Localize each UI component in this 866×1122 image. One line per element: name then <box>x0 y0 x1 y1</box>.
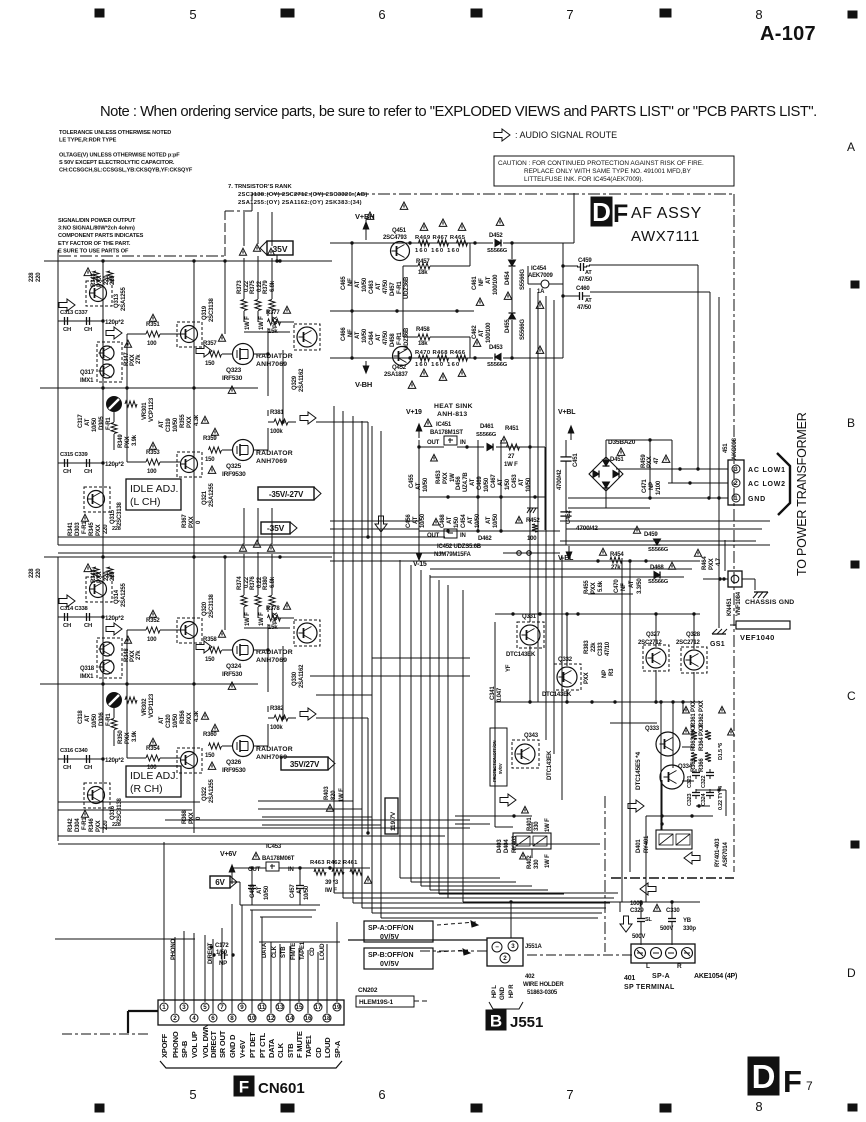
svg-text:PXX: PXX <box>96 524 102 536</box>
svg-text:IRF530: IRF530 <box>222 375 243 382</box>
transistor Q331 <box>517 622 544 648</box>
signal arrow <box>106 623 122 635</box>
svg-text:AT: AT <box>416 482 422 490</box>
svg-text:18k: 18k <box>418 341 428 347</box>
svg-text:15: 15 <box>296 1004 303 1011</box>
svg-text:3: 3 <box>734 466 738 473</box>
svg-text:18: 18 <box>324 1015 331 1022</box>
center vertical bundle A <box>333 406 335 893</box>
svg-text:IDLE ADJ.: IDLE ADJ. <box>130 770 178 782</box>
transistor rank note <box>228 184 368 206</box>
svg-text:100: 100 <box>147 469 157 475</box>
wires heatsink top <box>419 446 444 448</box>
svg-text:1: 1 <box>162 1004 166 1011</box>
svg-text:R354: R354 <box>146 746 160 752</box>
svg-text:D451: D451 <box>610 457 624 463</box>
svg-text:AT: AT <box>159 716 165 724</box>
svg-text:100k: 100k <box>270 725 283 731</box>
svg-text:ASR7014: ASR7014 <box>723 842 729 867</box>
svg-text:2: 2 <box>503 955 507 962</box>
svg-text:AT: AT <box>468 516 474 524</box>
svg-text:2SC2712: 2SC2712 <box>638 640 662 646</box>
svg-text:C463: C463 <box>369 280 375 294</box>
svg-text:VEF1040: VEF1040 <box>740 633 775 642</box>
svg-text:LITTELFUSE INK. FOR IC454(AEK7: LITTELFUSE INK. FOR IC454(AEK7009). <box>524 176 644 183</box>
svg-text:IC454: IC454 <box>531 266 547 272</box>
svg-text:PXX: PXX <box>187 712 193 724</box>
svg-text:A-107: A-107 <box>760 23 816 45</box>
flag 35V <box>260 241 293 255</box>
tolerance notes block <box>59 130 193 174</box>
svg-text:Q325: Q325 <box>226 463 242 470</box>
to power transformer bracket <box>777 453 790 515</box>
svg-text:220: 220 <box>103 524 109 534</box>
svg-text:10/50: 10/50 <box>362 277 368 292</box>
svg-text:D468: D468 <box>650 565 664 571</box>
svg-text:220: 220 <box>110 275 116 285</box>
svg-text:BA178M06T: BA178M06T <box>262 856 295 862</box>
svg-text:CHASSIS GND: CHASSIS GND <box>745 599 794 606</box>
wire vertical x225 <box>224 261 226 334</box>
svg-text:10: 10 <box>249 1015 256 1022</box>
svg-text:Q328: Q328 <box>686 632 701 638</box>
wires output stage <box>222 353 232 355</box>
svg-text:2SA1255: 2SA1255 <box>209 779 215 803</box>
svg-text:6: 6 <box>211 1015 215 1022</box>
mosfet Q326 <box>233 736 254 757</box>
svg-text:C318: C318 <box>78 710 84 724</box>
svg-text:14: 14 <box>287 1015 294 1022</box>
svg-text:A: A <box>847 140 855 154</box>
svg-text:22k: 22k <box>591 642 597 652</box>
svg-text:PXX: PXX <box>96 820 102 832</box>
svg-text:AT: AT <box>486 276 492 284</box>
svg-text:160 160 160: 160 160 160 <box>415 248 460 254</box>
channel R bottom buses <box>58 835 445 837</box>
net V-BH <box>363 361 369 373</box>
svg-text:D404: D404 <box>504 839 510 853</box>
svg-text:CH: CH <box>84 623 92 629</box>
svg-text:C315 C339: C315 C339 <box>60 452 89 458</box>
svg-text:5.6k: 5.6k <box>598 580 604 592</box>
signal arrow <box>106 327 122 339</box>
svg-text:SL: SL <box>645 917 652 923</box>
svg-text:100/100: 100/100 <box>493 274 499 295</box>
audio route arrow <box>300 412 316 424</box>
svg-text:AT: AT <box>85 418 91 426</box>
audio arrows <box>500 794 516 806</box>
svg-text:R: R <box>677 963 682 970</box>
resistor zigzags R36x <box>691 731 697 740</box>
svg-text:228: 228 <box>112 526 121 532</box>
svg-text:401: 401 <box>624 975 635 982</box>
wires driver <box>276 321 294 323</box>
svg-text:UZ4.7B: UZ4.7B <box>463 472 469 492</box>
vertical stubs top of channels <box>243 212 245 246</box>
jumper circles <box>517 551 522 556</box>
svg-text:R374: R374 <box>237 576 243 590</box>
svg-text:D457: D457 <box>390 282 396 296</box>
resistor R343 <box>93 271 99 281</box>
svg-text:F: F <box>613 200 628 228</box>
svg-text:R352: R352 <box>146 618 160 624</box>
svg-text:Note : When ordering service p: Note : When ordering service parts, be s… <box>100 104 817 120</box>
svg-text:−: − <box>495 944 499 951</box>
svg-text:Q314: Q314 <box>114 589 120 604</box>
transistor Q319 <box>177 322 202 347</box>
right feed verticals from PSU <box>697 265 699 469</box>
svg-text:Q317: Q317 <box>80 370 95 376</box>
wires output stage <box>222 649 232 651</box>
svg-text:PXX: PXX <box>187 416 193 428</box>
svg-text:R351: R351 <box>146 322 160 328</box>
svg-text:R364 PXX: R364 PXX <box>699 724 705 751</box>
svg-text:DTC143EK: DTC143EK <box>506 652 536 658</box>
svg-text:HLEM19S-1: HLEM19S-1 <box>359 999 394 1006</box>
svg-text:2: 2 <box>173 1015 177 1022</box>
svg-text:11: 11 <box>259 1004 266 1011</box>
svg-text:VOL UP: VOL UP <box>190 1031 199 1058</box>
idle adjust box L-ch <box>126 479 181 510</box>
svg-text:D452: D452 <box>489 233 503 239</box>
transistor Q313 <box>86 281 112 306</box>
svg-text:Q326: Q326 <box>226 759 242 766</box>
svg-text:12: 12 <box>268 1015 275 1022</box>
svg-text:IRF9530: IRF9530 <box>222 471 246 478</box>
svg-text:820: 820 <box>331 790 337 800</box>
wires bridge to AC connector <box>606 439 672 441</box>
svg-text:R361 PXX: R361 PXX <box>691 700 697 727</box>
mosfet Q324 <box>233 640 254 661</box>
svg-text:10/50: 10/50 <box>493 513 499 528</box>
svg-text:7. TRNSISTOR’S RANK: 7. TRNSISTOR’S RANK <box>228 184 292 190</box>
svg-text:D462: D462 <box>478 536 492 542</box>
svg-text:C464: C464 <box>369 331 375 345</box>
bottom-right sheet label <box>748 1057 779 1095</box>
big arrow down <box>375 516 387 532</box>
svg-text:PXX: PXX <box>125 732 131 744</box>
idle adjust box R-ch <box>126 766 181 797</box>
regulator IC451 <box>424 419 432 426</box>
arrows left-pointing <box>684 852 700 864</box>
svg-text:19: 19 <box>334 1004 341 1011</box>
svg-text:AKE1054 (4P): AKE1054 (4P) <box>694 973 737 980</box>
svg-text:R355: R355 <box>180 414 186 428</box>
svg-text:1/50: 1/50 <box>505 478 511 490</box>
svg-text:Q333: Q333 <box>645 726 660 732</box>
transistor Q327 <box>643 645 669 671</box>
svg-text:AT: AT <box>479 329 485 337</box>
svg-text:R346: R346 <box>89 818 95 832</box>
capacitor C451 4700/42 <box>560 452 571 466</box>
svg-text:C317: C317 <box>78 414 84 428</box>
svg-text:VR302: VR302 <box>142 698 148 716</box>
transistor Q328 <box>681 647 707 673</box>
resistor R344 <box>107 271 113 281</box>
svg-text:150: 150 <box>205 657 215 663</box>
svg-text:220: 220 <box>110 571 116 581</box>
svg-text:Q329: Q329 <box>292 375 298 390</box>
svg-text:S5566G: S5566G <box>648 547 669 553</box>
svg-text:47/50: 47/50 <box>383 279 389 294</box>
svg-text:R350: R350 <box>118 730 124 744</box>
svg-text:C455: C455 <box>409 474 415 488</box>
svg-text:VCP1123: VCP1123 <box>149 693 155 718</box>
svg-text:D: D <box>592 197 611 227</box>
wires lower right <box>613 700 616 703</box>
svg-text:2SC2712: 2SC2712 <box>676 640 700 646</box>
svg-text:4.3k: 4.3k <box>194 414 200 426</box>
row letters <box>847 140 856 980</box>
dash-dot border right branch <box>611 877 734 879</box>
svg-text:UDZ36B: UDZ36B <box>404 276 410 299</box>
svg-text:150: 150 <box>205 457 215 463</box>
svg-text:HEAT SINK: HEAT SINK <box>434 403 473 410</box>
svg-text:CN202: CN202 <box>358 987 378 994</box>
svg-text:C324: C324 <box>701 793 707 806</box>
svg-text:ANH7069: ANH7069 <box>256 361 287 368</box>
svg-text:9: 9 <box>240 1004 244 1011</box>
svg-text:5V/0V: 5V/0V <box>498 763 503 774</box>
svg-text:C471: C471 <box>642 479 648 493</box>
svg-text:C453: C453 <box>512 474 518 488</box>
svg-text:YB: YB <box>683 918 692 924</box>
transistor Q318 dual <box>97 638 122 678</box>
svg-text:10/50: 10/50 <box>423 477 429 492</box>
wires relay <box>661 780 663 830</box>
svg-text:27k: 27k <box>611 565 621 571</box>
svg-text:120p*2: 120p*2 <box>105 615 125 622</box>
svg-text:PT DET: PT DET <box>248 1032 257 1058</box>
J551 sheet ref <box>486 1010 506 1030</box>
svg-text:Q313: Q313 <box>114 293 120 308</box>
resistor R454 27k <box>599 548 606 555</box>
svg-text:2SA1837: 2SA1837 <box>384 372 408 378</box>
svg-text:C465: C465 <box>341 276 347 290</box>
connector SP terminal <box>631 944 695 963</box>
svg-text:AT: AT <box>447 516 453 524</box>
flag 6V <box>210 876 237 888</box>
flag 119.7V <box>385 798 398 834</box>
svg-text:1W F: 1W F <box>545 818 551 832</box>
svg-text:47: 47 <box>654 457 660 464</box>
svg-text:2SC3138: 2SC3138 <box>209 594 215 618</box>
svg-text:SR OUT: SR OUT <box>218 1030 227 1058</box>
svg-text:3.9k: 3.9k <box>132 730 138 742</box>
svg-text:E SURE TO USE PARTS OF: E SURE TO USE PARTS OF <box>58 248 129 254</box>
svg-text:Q315: Q315 <box>110 509 116 524</box>
wire to J551A <box>348 939 487 941</box>
transistor Q322 <box>177 748 202 773</box>
CN601 entry wire <box>128 1010 158 1012</box>
svg-text:6: 6 <box>378 7 385 22</box>
wire 6V to bus <box>230 881 240 883</box>
svg-text:35V/27V: 35V/27V <box>290 760 320 769</box>
svg-text:YF: YF <box>506 664 512 672</box>
svg-text:10/50: 10/50 <box>173 417 179 432</box>
svg-text:6.8k: 6.8k <box>270 576 276 588</box>
svg-text:AT: AT <box>376 333 382 341</box>
svg-text:R367: R367 <box>182 514 188 528</box>
svg-text:C321: C321 <box>687 776 693 788</box>
svg-text:R383: R383 <box>584 640 590 654</box>
svg-text:R464: R464 <box>702 556 708 570</box>
svg-text:100: 100 <box>147 341 157 347</box>
transistor Q329 <box>294 324 320 350</box>
svg-text:Q343: Q343 <box>524 733 539 739</box>
svg-text:SIGNAL/DIN POWER OUTPUT: SIGNAL/DIN POWER OUTPUT <box>58 218 136 224</box>
transistor Q330 <box>294 620 320 646</box>
svg-text:27k: 27k <box>136 354 142 364</box>
capacitor C172 dot <box>209 945 212 948</box>
dashed arrows from switch boxes <box>437 922 476 925</box>
svg-text:IN: IN <box>460 440 466 446</box>
svg-text:47/50: 47/50 <box>577 305 592 311</box>
svg-text:LOUD: LOUD <box>320 943 326 960</box>
svg-text:F-R1: F-R1 <box>397 281 403 294</box>
svg-text:IMX1: IMX1 <box>80 378 94 384</box>
svg-text:AT: AT <box>257 886 263 894</box>
svg-text:Q323: Q323 <box>226 367 242 374</box>
svg-text:R342: R342 <box>68 818 74 832</box>
svg-text:R368: R368 <box>182 810 188 824</box>
svg-text:D306: D306 <box>99 712 105 726</box>
svg-text:S5566G: S5566G <box>487 362 508 368</box>
svg-text:C314 C338: C314 C338 <box>60 606 89 612</box>
svg-text:R362 PXX: R362 PXX <box>699 700 705 727</box>
svg-text:500V: 500V <box>632 934 645 940</box>
bundle elbows from R channel <box>310 675 470 677</box>
svg-text:100/100: 100/100 <box>486 322 492 343</box>
svg-text:VR301: VR301 <box>142 402 148 420</box>
wire PSU mid rail <box>330 310 474 312</box>
svg-text:FM/TE: FM/TE <box>291 943 297 960</box>
svg-text:228: 228 <box>29 568 35 578</box>
svg-text:RADIATOR: RADIATOR <box>256 450 293 457</box>
svg-text:13: 13 <box>277 1004 284 1011</box>
svg-text:Q327: Q327 <box>646 632 661 638</box>
svg-text:0.047: 0.047 <box>497 687 503 702</box>
bottom distribution buses <box>240 904 320 906</box>
svg-text:R3: R3 <box>609 668 615 676</box>
resistor R346 <box>107 567 113 577</box>
svg-text:150: 150 <box>205 753 215 759</box>
svg-text:AT: AT <box>470 478 476 486</box>
svg-text:AT: AT <box>85 714 91 722</box>
svg-text:4: 4 <box>192 1015 196 1022</box>
svg-text:C452: C452 <box>566 510 572 524</box>
svg-text:PHONO: PHONO <box>171 1031 180 1058</box>
svg-text:150: 150 <box>205 361 215 367</box>
protection label box <box>490 728 507 786</box>
svg-text:GND D: GND D <box>228 1034 237 1058</box>
svg-text:10/50: 10/50 <box>484 477 490 492</box>
wires right mid <box>495 613 530 615</box>
svg-text:TOLERANCE UNLESS OTHERWISE NOT: TOLERANCE UNLESS OTHERWISE NOTED <box>59 130 171 136</box>
svg-text:10/50: 10/50 <box>92 417 98 432</box>
svg-text:STB: STB <box>281 946 287 958</box>
svg-text:47/50: 47/50 <box>578 277 593 283</box>
trimmer VR302 <box>107 693 122 708</box>
svg-text:7: 7 <box>566 7 573 22</box>
svg-text:Q318: Q318 <box>80 666 95 672</box>
svg-text:IDLE ADJ.: IDLE ADJ. <box>130 483 178 495</box>
svg-text:NF: NF <box>348 329 354 337</box>
svg-text:Q451: Q451 <box>392 228 407 234</box>
svg-text:C316 C340: C316 C340 <box>60 748 88 754</box>
CN601 pins <box>160 1003 168 1011</box>
svg-text:2SA1255: 2SA1255 <box>121 287 127 311</box>
svg-text:CN601: CN601 <box>258 1080 305 1097</box>
svg-text:V+6V: V+6V <box>220 851 237 858</box>
svg-text:F: F <box>239 1077 249 1096</box>
audio signal route legend arrow <box>494 129 510 141</box>
arrow to output <box>196 641 212 653</box>
svg-text:R453: R453 <box>436 470 442 484</box>
svg-text:V-BH: V-BH <box>355 380 372 389</box>
svg-text:R382: R382 <box>270 706 284 712</box>
flag -35V <box>261 522 297 534</box>
svg-text:7: 7 <box>566 1087 573 1102</box>
svg-text:RADIATOR: RADIATOR <box>256 746 293 753</box>
svg-text:OUT: OUT <box>427 440 440 446</box>
center vertical bundle B <box>399 560 401 878</box>
svg-text:AT: AT <box>486 516 492 524</box>
svg-text:IRF530: IRF530 <box>222 671 243 678</box>
svg-text:1W F: 1W F <box>245 612 251 626</box>
svg-text:Q331: Q331 <box>522 614 537 620</box>
svg-text:LE TYPE,R:RDR TYPE: LE TYPE,R:RDR TYPE <box>59 138 117 144</box>
svg-text:330: 330 <box>534 859 540 869</box>
svg-text:228: 228 <box>112 822 121 828</box>
svg-text:C329: C329 <box>630 908 644 914</box>
svg-text:120p*2: 120p*2 <box>105 757 125 764</box>
svg-text:GND: GND <box>748 496 766 503</box>
wire Q collector vertical <box>282 350 284 422</box>
svg-text:D454: D454 <box>505 271 511 285</box>
SP-A switch box <box>364 921 433 942</box>
svg-text:TO POWER TRANSFORMER: TO POWER TRANSFORMER <box>795 412 809 576</box>
svg-text:2SC3138:(OY) 2SC2712:(OY) 2S: 2SC3138:(OY) 2SC2712:(OY) 2SC3326:(AB) <box>238 192 368 198</box>
svg-text:2SA1255: 2SA1255 <box>121 583 127 607</box>
relay RY403 box <box>513 833 551 849</box>
svg-text:R455: R455 <box>584 580 590 594</box>
svg-text:51863-0305: 51863-0305 <box>527 990 558 996</box>
svg-text:C460: C460 <box>576 286 590 292</box>
capacitor C457 symbol <box>296 882 304 892</box>
svg-text:ANH-813: ANH-813 <box>437 411 467 418</box>
svg-text:CLK: CLK <box>272 945 278 958</box>
svg-text:REPLACE ONLY WITH SAME TYPE NO: REPLACE ONLY WITH SAME TYPE NO. 491001 M… <box>524 168 692 175</box>
svg-text:Q330: Q330 <box>292 671 298 686</box>
svg-text:COMPONENT PARTS INDICATES: COMPONENT PARTS INDICATES <box>58 233 144 239</box>
svg-text:L: L <box>646 963 650 970</box>
svg-text:Q452: Q452 <box>392 365 407 371</box>
svg-text:IC451: IC451 <box>436 422 452 428</box>
transistor Q452 <box>393 347 412 366</box>
svg-text:ANH7069: ANH7069 <box>256 458 287 465</box>
svg-text:C330: C330 <box>666 908 680 914</box>
svg-text:AT: AT <box>585 270 592 276</box>
wire vertical x225 <box>224 557 226 630</box>
svg-text:C451: C451 <box>573 453 579 467</box>
svg-text:AT: AT <box>413 516 419 524</box>
svg-text:R353: R353 <box>146 450 160 456</box>
diode D454 <box>509 260 516 266</box>
svg-text:3: 3 <box>182 1004 186 1011</box>
svg-text:PXX: PXX <box>584 672 590 684</box>
connector CN601 box <box>158 1000 344 1025</box>
